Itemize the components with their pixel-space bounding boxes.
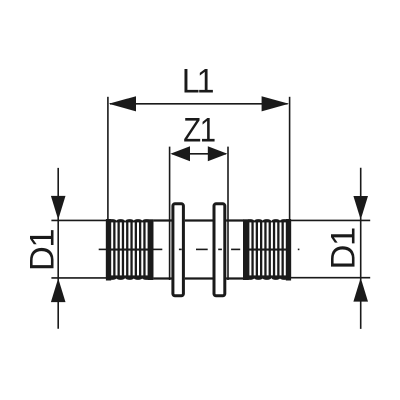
svg-text:D1: D1 bbox=[24, 230, 62, 271]
svg-text:D1: D1 bbox=[324, 228, 362, 269]
svg-text:L1: L1 bbox=[182, 62, 213, 100]
svg-text:Z1: Z1 bbox=[183, 110, 215, 149]
